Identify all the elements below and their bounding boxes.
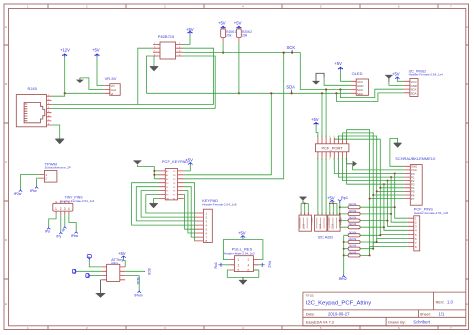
svg-text:Rx2: Rx2 xyxy=(267,261,271,267)
wire +12V junction to VR VI xyxy=(65,92,105,94)
svg-text:P4: P4 xyxy=(173,183,175,185)
net flag (ATTiny left3) xyxy=(86,274,102,279)
svg-text:3: 3 xyxy=(325,136,326,138)
node SCK tap xyxy=(283,52,285,54)
node Rp1 r2 xyxy=(339,213,341,215)
svg-text:tPwm: tPwm xyxy=(135,293,143,297)
wire SDA rail xyxy=(147,92,351,94)
svg-text:Schribert: Schribert xyxy=(413,320,431,325)
svg-text:B: B xyxy=(5,82,7,86)
svg-text:EasyEDA V4.7.3: EasyEDA V4.7.3 xyxy=(306,321,334,325)
svg-text:Header-Female-2.54_1x4: Header-Female-2.54_1x4 xyxy=(60,199,95,203)
svg-text:tPy: tPy xyxy=(57,234,62,238)
svg-text:SDA: SDA xyxy=(286,84,295,89)
wire column V3 xyxy=(388,181,408,227)
svg-text:Rp1: Rp1 xyxy=(341,196,348,200)
svg-text:PCF_KEYPAD: PCF_KEYPAD xyxy=(162,159,188,164)
net flag (TINY_PINS pin2) xyxy=(57,215,63,239)
resistor R20K1 xyxy=(218,21,236,42)
net flag Rx1 xyxy=(214,262,230,268)
wire SCHRAUBKLEMME VCC xyxy=(353,164,405,170)
node SCK label tap xyxy=(291,52,293,54)
wire +5V to ATTiny xyxy=(124,259,126,267)
ground (I2C_ADD jumper1) xyxy=(299,197,308,215)
node P6/V7 xyxy=(372,194,374,196)
header PULL_RES xyxy=(224,247,258,273)
net flag tPtw (TPWM pin2) xyxy=(30,178,39,193)
svg-text:2k2-0k: 2k2-0k xyxy=(349,230,357,234)
wire column V4 xyxy=(384,184,408,230)
power flag +5V (ATTiny) xyxy=(118,251,126,259)
svg-text:+5V: +5V xyxy=(118,251,126,256)
svg-text:Sheet:: Sheet: xyxy=(420,312,431,316)
connector TINY_PINS xyxy=(53,196,95,215)
svg-text:+12V: +12V xyxy=(60,48,70,53)
svg-text:3: 3 xyxy=(64,207,66,211)
net flag Rx2 xyxy=(258,261,271,267)
node R20K1/SCK xyxy=(222,52,224,54)
wire V7 to PCF_PINS pin7 xyxy=(373,242,408,244)
node P1/V2 xyxy=(390,176,392,178)
net flag SDA (ATTiny right3) xyxy=(125,276,143,298)
wire P82B715 right pin2 down to RJ45 pin3 row xyxy=(183,48,214,104)
wire +5V to P82B715 xyxy=(183,34,191,44)
svg-text:Header: Header xyxy=(311,217,314,224)
svg-text:Header-Female-2.54_1x4: Header-Female-2.54_1x4 xyxy=(409,73,444,77)
wire SDA tap down to PCF_KEYPAD xyxy=(184,93,272,175)
wire P4 row xyxy=(380,187,404,189)
wire PCF_PORT top pin7 wrap over to column V7 xyxy=(343,133,374,249)
svg-text:+5V: +5V xyxy=(334,61,342,66)
net flag tP2w (TPWM pin1) xyxy=(14,175,39,197)
svg-text:2k2-0k: 2k2-0k xyxy=(349,216,357,220)
wire PCF_PORT bottom pin7 to P2 row xyxy=(343,158,405,181)
wire P82B715 left pin2 to RJ45 pin3 column xyxy=(138,48,153,104)
svg-text:+5V: +5V xyxy=(392,71,400,76)
svg-text:A: A xyxy=(466,25,468,29)
svg-text:3: 3 xyxy=(238,263,240,267)
svg-text:TITLE:: TITLE: xyxy=(305,294,314,298)
node P0/V1 xyxy=(394,173,396,175)
wire RJ45 pin8 to ground xyxy=(51,125,59,139)
net flag (TINY_PINS pin3) xyxy=(62,215,67,233)
svg-text:P7: P7 xyxy=(411,197,415,201)
wire SCK detour under OLED to I2C_PINS2 xyxy=(340,89,404,97)
svg-text:4: 4 xyxy=(68,207,70,211)
node Rm2 r6 xyxy=(343,241,345,243)
resistor R8 (pull) xyxy=(344,247,371,258)
node Rp1 r1 xyxy=(339,206,341,208)
svg-text:1: 1 xyxy=(238,258,240,262)
svg-text:Header-Male-2.54_2x3: Header-Male-2.54_2x3 xyxy=(224,252,255,256)
svg-text:+5V: +5V xyxy=(327,196,335,201)
wire P6 row xyxy=(373,194,404,196)
IC ATTiny xyxy=(102,257,126,281)
svg-text:A2: A2 xyxy=(166,178,168,181)
svg-text:20k: 20k xyxy=(226,34,232,38)
svg-text:P2: P2 xyxy=(166,191,168,193)
svg-text:2: 2 xyxy=(321,136,322,138)
regulator VR-5V xyxy=(105,76,121,96)
power flag +5V (PCF_PORT) xyxy=(311,117,319,126)
wire PCF_KEYPAD P2 to KEYPAD3 xyxy=(141,191,195,218)
svg-text:I2C ADD: I2C ADD xyxy=(318,235,334,240)
ground below RJ45 xyxy=(55,139,64,144)
wire Rp1 rail xyxy=(339,204,341,228)
svg-text:1.0: 1.0 xyxy=(447,299,453,304)
node PCF_PORT SCK tap xyxy=(325,88,327,90)
svg-text:SCK: SCK xyxy=(147,268,151,276)
ground (PCF_KEYPAD address pins) xyxy=(133,161,159,179)
node Rm2 r7 xyxy=(343,248,345,250)
svg-text:Date:: Date: xyxy=(306,312,315,316)
svg-text:I2C_Keypad_PCF_Attiny: I2C_Keypad_PCF_Attiny xyxy=(306,301,372,307)
net label SDA xyxy=(286,84,295,93)
wire PCF_KEYPAD P1 to KEYPAD2 xyxy=(136,187,195,221)
wire PCF_PORT SCK tap down xyxy=(325,90,327,138)
wire RJ45 pin3 long xyxy=(51,104,213,106)
power flag +5V (OLED) xyxy=(334,61,343,71)
ground (PULL_RES) xyxy=(227,270,258,285)
display OLED xyxy=(351,71,369,96)
net flag (ATTiny left1) xyxy=(87,255,102,267)
svg-text:Schraubklemme_2P: Schraubklemme_2P xyxy=(45,166,71,170)
wire +5V to PCF_PORT pin1 xyxy=(316,126,318,138)
wire PCF_KEYPAD P7 to KEYPAD5 xyxy=(184,195,195,230)
svg-text:tPbw: tPbw xyxy=(71,234,79,238)
svg-text:2: 2 xyxy=(248,258,250,262)
svg-text:1: 1 xyxy=(55,207,57,211)
svg-text:2k2-0k: 2k2-0k xyxy=(349,222,357,226)
svg-text:P5: P5 xyxy=(173,187,175,189)
wire +12V rail xyxy=(64,57,66,93)
wire +5V to PCF_KEYPAD xyxy=(184,166,191,171)
svg-text:A: A xyxy=(5,25,7,29)
resistor R5 (pull) xyxy=(344,230,382,237)
node Rm2 r8 xyxy=(343,254,345,256)
wire +5V to VR VO xyxy=(97,57,105,86)
net flag (ATTiny left2) xyxy=(72,269,101,274)
svg-text:1: 1 xyxy=(317,136,318,138)
net flag Rp1 xyxy=(338,196,348,204)
wire V6 to PCF_PINS pin6 xyxy=(377,237,408,239)
wire SCK tap down to PCF_KEYPAD xyxy=(184,53,284,179)
svg-text:P1: P1 xyxy=(166,187,168,189)
svg-text:tP: tP xyxy=(62,229,65,233)
svg-text:2k2-0k: 2k2-0k xyxy=(349,202,357,206)
svg-text:VI: VI xyxy=(111,92,114,96)
jumper I2C_ADD 1 xyxy=(299,212,337,231)
power flag +5V (PULL_RES) xyxy=(238,230,246,238)
svg-text:P0: P0 xyxy=(166,183,168,185)
node junction +12V/RJ45 xyxy=(64,92,66,94)
svg-text:Header-Female-2.54_1x8: Header-Female-2.54_1x8 xyxy=(202,203,237,207)
IC PCF_KEYPAD xyxy=(159,159,188,201)
wire Rm2 rail xyxy=(343,235,345,273)
svg-text:B: B xyxy=(466,82,468,86)
power flag +12V xyxy=(60,48,70,58)
wire R20K2 down to SDA rail xyxy=(238,42,240,94)
svg-text:tPa: tPa xyxy=(45,230,50,234)
svg-text:RJ45: RJ45 xyxy=(28,86,38,91)
IC P82B715 xyxy=(153,34,183,59)
svg-text:A0: A0 xyxy=(166,170,168,173)
svg-text:OLED: OLED xyxy=(352,71,363,76)
wire RJ45 pin1 up to +12V node xyxy=(51,93,64,96)
wire P82B715 right pin4 down to RJ45 pin4 row xyxy=(183,56,216,109)
wire PCF_PORT bottom pin5 to P0 row xyxy=(334,158,404,174)
svg-text:5: 5 xyxy=(333,136,334,138)
IC PCF_PORT xyxy=(315,136,349,160)
svg-text:+5V: +5V xyxy=(218,21,226,26)
power flag +5V (P82B715) xyxy=(186,27,194,34)
node P5/V6 xyxy=(376,190,378,192)
net flag SCK (ATTiny right2) xyxy=(125,268,151,276)
node R20K2/SDA xyxy=(238,92,240,94)
net label SCK xyxy=(287,45,296,53)
resistor R4 (pull) xyxy=(340,222,385,229)
svg-text:4: 4 xyxy=(329,136,330,138)
wire SDA detour under OLED to I2C_PINS2 xyxy=(336,93,404,102)
svg-text:Header-Female-2.54_1x8: Header-Female-2.54_1x8 xyxy=(414,211,449,215)
svg-text:4: 4 xyxy=(329,159,330,161)
power flag +5V (I2C_ADD 3) xyxy=(327,196,335,203)
connector TPWM xyxy=(39,161,71,182)
svg-text:+5V: +5V xyxy=(311,117,319,122)
net flag (TINY_PINS pin1) xyxy=(45,215,56,234)
wire P5 row xyxy=(377,190,405,192)
wire PCF_KEYPAD P4 to KEYPAD8 xyxy=(184,183,195,241)
wire PCF_KEYPAD P5 to KEYPAD7 xyxy=(184,187,195,237)
svg-text:VR-5V: VR-5V xyxy=(105,76,117,81)
wire PCF_PORT SDA tap down xyxy=(321,93,323,138)
wire P82B715 left pin4 to SDA rail start xyxy=(147,56,154,93)
node P3/V4 xyxy=(383,183,385,185)
ground arrow right (PCF_PORT aux) xyxy=(347,158,357,167)
ground near VR-5V xyxy=(76,78,105,90)
svg-text:SCHRAUBKLEMME1X: SCHRAUBKLEMME1X xyxy=(395,156,436,161)
svg-text:+5V: +5V xyxy=(234,21,242,26)
node P2/V3 xyxy=(387,180,389,182)
TITLE_BLOCK xyxy=(303,292,466,326)
ground (I2C_PINS2) xyxy=(385,75,404,85)
node Rp1 r3 xyxy=(339,220,341,222)
connector PCF_PINS xyxy=(408,206,449,251)
wire V8 to PCF_PINS pin8 xyxy=(370,246,408,248)
node SDA label tap xyxy=(291,92,293,94)
svg-text:+5V: +5V xyxy=(92,48,100,53)
svg-text:2k2-0k: 2k2-0k xyxy=(349,209,357,213)
svg-text:5: 5 xyxy=(238,269,240,273)
svg-text:P3: P3 xyxy=(166,195,168,197)
resistor R3 (pull) xyxy=(340,216,389,223)
connector I2C_PINS2 xyxy=(404,69,443,96)
net flag Rm2 xyxy=(339,274,347,281)
node SCK detour xyxy=(339,88,341,90)
connector RJ45 xyxy=(16,86,51,127)
svg-text:Header: Header xyxy=(339,217,342,224)
resistor R2 (pull) xyxy=(340,209,392,216)
svg-text:tP2w: tP2w xyxy=(14,192,22,196)
svg-text:Rm2: Rm2 xyxy=(339,277,347,281)
svg-text:2019-06-27: 2019-06-27 xyxy=(328,311,350,316)
svg-text:E: E xyxy=(466,302,468,306)
wire PCF_KEYPAD P3 to KEYPAD4 xyxy=(146,195,195,213)
wire V5 to PCF_PINS pin5 xyxy=(380,233,408,235)
wire R20K1 to SCK rail xyxy=(222,42,224,53)
svg-text:A1: A1 xyxy=(166,174,168,177)
svg-text:Rx1: Rx1 xyxy=(214,262,218,268)
resistor R20K2 xyxy=(234,21,252,42)
net flag tPbw (TINY_PINS pin4) xyxy=(69,215,79,238)
svg-text:SDA: SDA xyxy=(136,277,140,285)
ground below ATTiny xyxy=(95,280,106,298)
node PCF_PORT SDA tap xyxy=(321,92,323,94)
connector SCHRAUBKLEMME1X xyxy=(395,156,436,205)
svg-text:4: 4 xyxy=(248,263,250,267)
node P4/V5 xyxy=(379,187,381,189)
wire +5V to I2C_PINS2 VCC xyxy=(397,80,404,82)
ground hook (OLED GND) xyxy=(312,73,351,85)
wire RJ45 pin4 long xyxy=(51,108,215,110)
power flag +5V (VR input) xyxy=(92,48,100,58)
wire P7 row xyxy=(370,198,405,200)
node P7/V8 xyxy=(369,198,371,200)
power flag +5V (PCF_KEYPAD) xyxy=(185,157,193,165)
wire PCF_PORT bottom pin6 to P1 row xyxy=(338,158,404,178)
node SDA detour xyxy=(335,92,337,94)
svg-text:P82B715: P82B715 xyxy=(158,34,175,39)
svg-text:E: E xyxy=(5,302,7,306)
wire PULL_RES +5V rail xyxy=(223,239,263,260)
svg-text:SDA: SDA xyxy=(357,92,363,96)
connector KEYPAD xyxy=(195,198,237,243)
jumper I2C_ADD 2 xyxy=(315,158,330,232)
wire PCF_PORT top pin5 wrap over to column V5 xyxy=(334,139,380,235)
svg-text:SDA: SDA xyxy=(411,91,417,95)
svg-text:2k2-0k: 2k2-0k xyxy=(349,237,357,241)
ground below P82B715 xyxy=(150,56,158,71)
svg-text:PCF_PORT: PCF_PORT xyxy=(322,146,344,151)
svg-text:1/1: 1/1 xyxy=(439,311,445,316)
resistor R7 (pull) xyxy=(344,243,375,251)
power flag +5V (I2C_PINS2) xyxy=(392,71,400,79)
wire PCF_PORT bottom pin8 to P3 row xyxy=(347,158,405,185)
svg-text:P6: P6 xyxy=(173,191,175,193)
wire column V2 xyxy=(391,177,408,222)
resistor R1 (pull) xyxy=(340,202,396,209)
resistor R6 (pull) xyxy=(344,237,378,244)
svg-text:6: 6 xyxy=(248,269,250,273)
svg-text:tPtw: tPtw xyxy=(30,189,37,193)
svg-text:20k: 20k xyxy=(242,34,248,38)
wire PCF_KEYPAD P0 to KEYPAD1 xyxy=(132,183,195,225)
svg-text:2k2-0k: 2k2-0k xyxy=(349,244,357,248)
wire column V1 xyxy=(395,174,408,219)
wire PCF_KEYPAD P6 to KEYPAD6 xyxy=(184,191,195,233)
svg-text:P7: P7 xyxy=(173,195,175,197)
svg-text:SCK: SCK xyxy=(287,45,296,50)
svg-text:Drawn By:: Drawn By: xyxy=(388,321,406,325)
svg-text:2k2-0k: 2k2-0k xyxy=(349,250,357,254)
jumper I2C_ADD 3 xyxy=(328,203,343,232)
svg-text:REV:: REV: xyxy=(436,300,445,304)
wire PCF_PORT top pin6 wrap over to column V6 xyxy=(338,136,376,242)
wire PCF_PORT top pin8 wrap over to column V8 xyxy=(347,130,370,256)
svg-text:+5V: +5V xyxy=(238,230,246,235)
ground below PCF_KEYPAD xyxy=(149,199,159,209)
ground (SCHRAUBKLEMME GND) xyxy=(390,138,404,166)
wire +5V to OLED VCC xyxy=(341,70,351,81)
svg-text:2: 2 xyxy=(60,207,62,211)
wire SCK rail xyxy=(183,53,351,90)
node SDA tap xyxy=(270,92,272,94)
